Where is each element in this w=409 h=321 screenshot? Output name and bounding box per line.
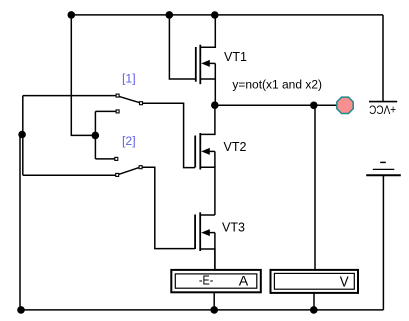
junction voltmeter bottom xyxy=(310,306,318,314)
wire S2 top throw xyxy=(95,158,115,160)
wire left rail x=20 xyxy=(19,135,21,310)
wire voltmeter bottom lead xyxy=(313,293,315,310)
svg-text:y=not(x1 and x2): y=not(x1 and x2) xyxy=(232,77,322,91)
wire top rail xyxy=(71,14,383,16)
voltmeter P2 xyxy=(271,270,359,293)
switch S1 xyxy=(116,94,142,113)
svg-text:A: A xyxy=(239,272,249,288)
power VCC symbol xyxy=(369,101,397,103)
probe lamp xyxy=(337,97,353,113)
wire S1 bottom throw xyxy=(95,110,116,112)
svg-text:VT2: VT2 xyxy=(224,140,247,154)
svg-text:+VCC: +VCC xyxy=(369,102,396,114)
transistor VT3 xyxy=(195,212,215,270)
junction left column xyxy=(18,131,26,139)
transistor VT1 xyxy=(196,45,216,105)
junction bottom-left xyxy=(17,306,25,314)
junction output node xyxy=(211,101,219,109)
junction ammeter bottom xyxy=(210,306,218,314)
junction switch column xyxy=(92,132,100,140)
switch S2 xyxy=(115,157,142,176)
wire S1 top throw xyxy=(23,95,117,97)
wire output node y xyxy=(215,104,337,106)
wire S2 common to VT3 gate xyxy=(142,167,195,248)
wire ammeter top lead xyxy=(214,249,216,270)
junction voltmeter tap xyxy=(310,102,318,110)
svg-text:[1]: [1] xyxy=(122,72,136,86)
wire bottom rail xyxy=(20,309,383,311)
svg-text:V: V xyxy=(340,273,349,290)
wire ammeter bottom lead xyxy=(213,292,215,310)
wire S1 common to VT2 gate xyxy=(142,103,195,167)
svg-text:[2]: [2] xyxy=(122,134,136,148)
wire VT1 drain lead xyxy=(200,15,215,47)
wire battery lead xyxy=(382,175,384,310)
svg-text:-E-: -E- xyxy=(199,273,214,288)
svg-text:VT3: VT3 xyxy=(222,221,245,235)
transistor VT2 xyxy=(195,105,215,215)
wire S2 bottom throw xyxy=(23,174,116,176)
wire VCC lead xyxy=(382,15,384,101)
junction top-left xyxy=(68,11,76,19)
wire left branch from top dot down to junction xyxy=(71,15,95,135)
junction top-mid xyxy=(166,11,174,19)
wire voltmeter top lead xyxy=(314,105,316,270)
wire switch throws vertical x=95 xyxy=(94,111,96,158)
wire VT1 gate lead xyxy=(169,15,195,79)
svg-text:VT1: VT1 xyxy=(224,50,247,64)
battery GB1 xyxy=(366,162,401,175)
wire left column x=23 xyxy=(22,96,24,176)
junction top-right xyxy=(211,11,219,19)
ammeter P1 xyxy=(171,270,260,292)
